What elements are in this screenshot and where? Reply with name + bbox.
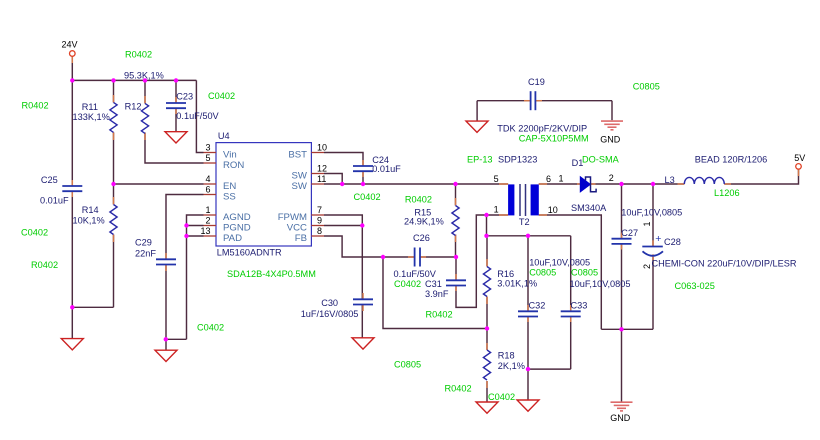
- svg-text:1: 1: [559, 174, 564, 184]
- svg-text:5: 5: [205, 153, 210, 163]
- svg-text:+: +: [655, 233, 661, 245]
- svg-text:1uF/16V/0805: 1uF/16V/0805: [301, 309, 359, 319]
- svg-text:U4: U4: [218, 131, 230, 141]
- svg-text:7: 7: [317, 205, 322, 215]
- svg-text:R0402: R0402: [405, 195, 432, 205]
- svg-text:10uF,10V,0805: 10uF,10V,0805: [529, 257, 590, 267]
- svg-text:R12: R12: [125, 102, 142, 112]
- svg-text:13: 13: [200, 226, 210, 236]
- svg-text:DO-SMA: DO-SMA: [582, 155, 620, 165]
- svg-text:10uF,10V,0805: 10uF,10V,0805: [570, 279, 631, 289]
- svg-text:1: 1: [494, 205, 499, 215]
- svg-text:RON: RON: [223, 160, 244, 171]
- svg-text:GND: GND: [600, 134, 621, 144]
- svg-text:L1206: L1206: [714, 188, 740, 198]
- svg-text:AGND: AGND: [223, 212, 251, 223]
- svg-text:0.01uF: 0.01uF: [40, 196, 69, 206]
- svg-text:133K,1%: 133K,1%: [73, 112, 110, 122]
- svg-text:R16: R16: [497, 269, 514, 279]
- svg-text:9: 9: [317, 216, 322, 226]
- svg-text:2K,1%: 2K,1%: [498, 361, 525, 371]
- svg-text:C0402: C0402: [21, 228, 48, 238]
- svg-text:SS: SS: [223, 192, 236, 203]
- svg-text:3.01K,1%: 3.01K,1%: [497, 279, 537, 289]
- svg-text:6: 6: [546, 174, 551, 184]
- svg-text:12: 12: [317, 164, 327, 174]
- svg-text:C19: C19: [528, 77, 545, 87]
- svg-text:C31: C31: [425, 279, 442, 289]
- svg-text:FB: FB: [295, 233, 307, 244]
- svg-text:11: 11: [317, 174, 326, 184]
- svg-text:1: 1: [205, 205, 210, 215]
- svg-text:R14: R14: [82, 205, 99, 215]
- svg-text:3.9nF: 3.9nF: [425, 289, 449, 299]
- svg-text:C0805: C0805: [633, 82, 660, 92]
- svg-text:CHEMI-CON 220uF/10V/DIP/LESR: CHEMI-CON 220uF/10V/DIP/LESR: [652, 258, 797, 268]
- svg-text:LM5160ADNTR: LM5160ADNTR: [217, 248, 282, 258]
- svg-text:SDA12B-4X4P0.5MM: SDA12B-4X4P0.5MM: [227, 269, 316, 279]
- svg-text:EP-13: EP-13: [467, 155, 493, 165]
- svg-text:PGND: PGND: [223, 223, 251, 234]
- svg-text:BST: BST: [288, 150, 307, 161]
- svg-text:C0402: C0402: [488, 392, 515, 402]
- svg-text:R0402: R0402: [426, 310, 453, 320]
- svg-text:0.1uF/50V: 0.1uF/50V: [176, 111, 219, 121]
- svg-text:CAP-5X10P5MM: CAP-5X10P5MM: [519, 133, 589, 143]
- svg-text:C0402: C0402: [354, 192, 381, 202]
- svg-text:FPWM: FPWM: [278, 212, 307, 223]
- svg-text:T2: T2: [519, 217, 530, 227]
- svg-text:C0402: C0402: [208, 91, 235, 101]
- svg-text:C063-025: C063-025: [675, 281, 715, 291]
- svg-text:10uF,10V,0805: 10uF,10V,0805: [621, 208, 682, 218]
- svg-text:VCC: VCC: [287, 223, 307, 234]
- svg-text:C28: C28: [664, 237, 681, 247]
- svg-text:2: 2: [642, 264, 652, 269]
- svg-text:10: 10: [317, 143, 327, 153]
- svg-text:C25: C25: [41, 175, 58, 185]
- svg-text:SW: SW: [292, 171, 308, 182]
- svg-text:C0805: C0805: [394, 360, 421, 370]
- svg-text:R0402: R0402: [125, 50, 152, 60]
- svg-text:R0402: R0402: [22, 101, 49, 111]
- svg-text:C33: C33: [571, 300, 588, 310]
- svg-text:C0402: C0402: [197, 323, 224, 333]
- svg-text:TDK 2200pF/2KV/DIP: TDK 2200pF/2KV/DIP: [497, 124, 587, 134]
- svg-text:R0402: R0402: [445, 384, 472, 394]
- svg-text:3: 3: [205, 143, 210, 153]
- svg-text:0.01uF: 0.01uF: [372, 164, 401, 174]
- svg-text:Vin: Vin: [223, 150, 237, 161]
- svg-text:R18: R18: [498, 351, 515, 361]
- svg-text:PAD: PAD: [223, 233, 242, 244]
- svg-text:C29: C29: [135, 238, 152, 248]
- svg-text:95.3K,1%: 95.3K,1%: [124, 71, 164, 81]
- svg-text:24V: 24V: [62, 40, 78, 50]
- svg-text:L3: L3: [665, 175, 675, 185]
- svg-text:24.9K,1%: 24.9K,1%: [404, 217, 444, 227]
- svg-text:4: 4: [205, 174, 210, 184]
- svg-text:8: 8: [317, 226, 322, 236]
- svg-text:C30: C30: [321, 298, 338, 308]
- svg-text:EN: EN: [223, 181, 236, 192]
- svg-text:10: 10: [548, 205, 558, 215]
- svg-text:2: 2: [205, 216, 210, 226]
- svg-text:R0402: R0402: [31, 260, 58, 270]
- svg-text:1: 1: [642, 221, 652, 226]
- svg-text:R11: R11: [82, 102, 98, 112]
- svg-text:C32: C32: [529, 300, 546, 310]
- svg-text:5V: 5V: [794, 153, 805, 163]
- svg-text:SM340A: SM340A: [571, 203, 607, 213]
- svg-text:6: 6: [205, 185, 210, 195]
- svg-text:C27: C27: [621, 228, 638, 238]
- svg-text:2: 2: [609, 173, 614, 183]
- svg-text:C0805: C0805: [571, 268, 598, 278]
- svg-text:5: 5: [494, 174, 499, 184]
- svg-text:C0402: C0402: [394, 279, 421, 289]
- svg-text:SW: SW: [292, 181, 308, 192]
- svg-text:C23: C23: [176, 91, 193, 101]
- svg-text:BEAD 120R/1206: BEAD 120R/1206: [695, 155, 768, 165]
- svg-text:GND: GND: [610, 413, 631, 423]
- svg-text:C26: C26: [413, 233, 430, 243]
- svg-text:0.1uF/50V: 0.1uF/50V: [394, 269, 437, 279]
- svg-text:10K,1%: 10K,1%: [73, 216, 105, 226]
- svg-text:C0805: C0805: [529, 268, 556, 278]
- svg-text:SDP1323: SDP1323: [498, 155, 537, 165]
- svg-text:22nF: 22nF: [135, 249, 156, 259]
